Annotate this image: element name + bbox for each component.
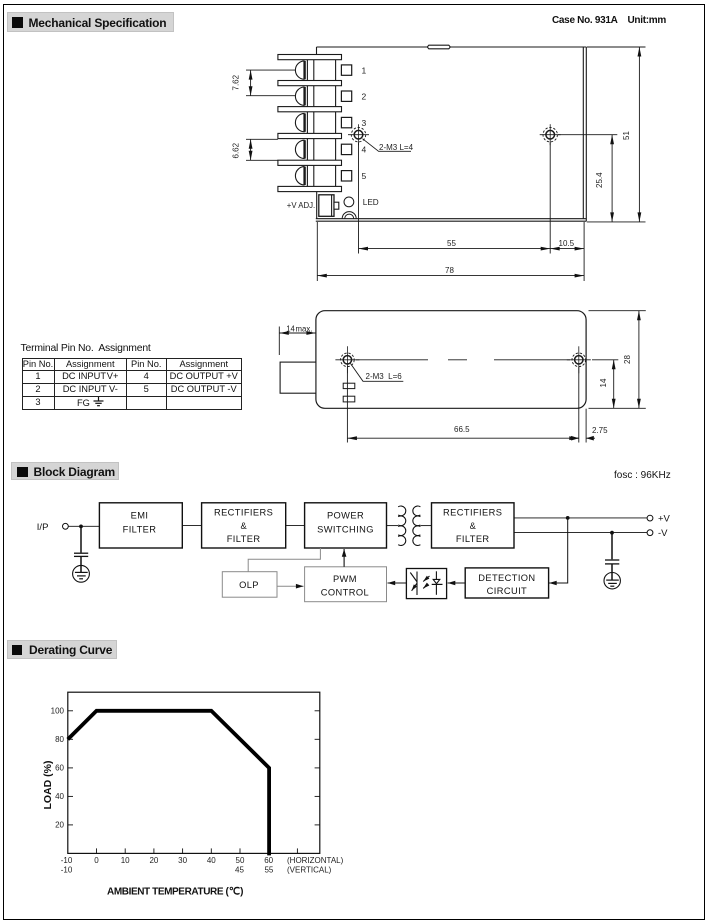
mounting hole bottom view — [567, 346, 591, 373]
node +V sense junction — [566, 516, 570, 520]
svg-text:50: 50 — [236, 856, 245, 865]
mounting hole front view — [540, 124, 561, 145]
potentiometer +V ADJ — [319, 195, 334, 217]
terminal screw 4 — [295, 140, 304, 158]
terminal body lines gap 4 — [306, 139, 308, 161]
svg-text:0: 0 — [94, 856, 99, 865]
output terminal +V — [647, 515, 653, 521]
terminal block barrier plate 3 — [278, 107, 342, 112]
hole arcs on bottom flange — [342, 212, 356, 219]
terminal block barrier plate 2 — [278, 81, 342, 86]
svg-text:CIRCUIT: CIRCUIT — [487, 586, 528, 596]
svg-text:PWM: PWM — [333, 574, 357, 584]
wire +V sense to DETECTION CIRCUIT — [550, 518, 568, 583]
svg-text:AMBIENT TEMPERATURE ( ℃ ): AMBIENT TEMPERATURE ( ℃ ) — [107, 887, 243, 898]
extension lines below front view — [317, 47, 645, 281]
svg-text:6.62: 6.62 — [231, 142, 240, 158]
svg-text:4: 4 — [362, 145, 367, 155]
svg-text:+V ADJ.: +V ADJ. — [287, 201, 315, 210]
svg-text:40: 40 — [207, 856, 216, 865]
block RECTIFIERS & FILTER (output) — [432, 503, 515, 548]
terminal block barrier plate 1 — [278, 55, 342, 60]
dimension 25.4 — [558, 134, 617, 136]
svg-text:EMI: EMI — [131, 511, 149, 521]
wire input to EMI — [68, 525, 99, 527]
terminal pin table — [22, 358, 243, 411]
terminal body lines gap 5 — [306, 165, 308, 186]
svg-text:FILTER: FILTER — [227, 534, 261, 544]
output terminal -V — [647, 530, 653, 536]
svg-text:80: 80 — [55, 735, 64, 744]
terminal block profile bump — [280, 362, 316, 393]
wire PWM CONTROL to POWER SWITCHING — [343, 549, 345, 567]
svg-text:LOAD (%): LOAD (%) — [42, 761, 54, 810]
ground output (earth) — [604, 573, 620, 589]
svg-text:SWITCHING: SWITCHING — [317, 525, 374, 535]
block PWM CONTROL — [305, 567, 387, 602]
pin hole square 3 — [341, 117, 351, 127]
terminal screw 1 — [295, 61, 304, 79]
svg-text:55: 55 — [264, 866, 273, 875]
node -V junction — [610, 531, 614, 535]
wire RECTIFIERS to POWER SWITCHING — [286, 525, 305, 527]
terminal body lines gap 3 — [306, 112, 308, 134]
mounting hole bottom view — [335, 346, 359, 373]
case front view: left edge segments — [316, 47, 318, 55]
case front view: bottom edge (double) — [316, 218, 587, 220]
x ticks — [97, 848, 298, 853]
wire -V output rail — [514, 532, 647, 534]
pin hole square 2 — [341, 91, 351, 101]
mounting hole front view — [348, 124, 369, 145]
svg-text:10.5: 10.5 — [559, 239, 575, 248]
node input junction — [79, 525, 83, 529]
capacitor output Y-cap — [605, 533, 619, 580]
label 2-M3 L=6 with leader — [351, 364, 404, 382]
case bottom view outline — [316, 311, 586, 409]
wire EMI to RECTIFIERS — [182, 525, 201, 527]
case front view: right edge (double) — [582, 47, 584, 219]
block RECTIFIERS & FILTER (input) — [202, 503, 286, 548]
svg-text:30: 30 — [178, 856, 187, 865]
svg-text:66.5: 66.5 — [454, 425, 470, 434]
derating curve line — [68, 711, 269, 856]
dimension 78 — [317, 275, 584, 277]
svg-text:51: 51 — [622, 131, 631, 140]
block POWER SWITCHING — [305, 503, 387, 548]
svg-text:RECTIFIERS: RECTIFIERS — [214, 507, 273, 517]
label 2-M3 L=4 with leader — [363, 139, 412, 152]
section header: Block Diagram — [11, 462, 119, 480]
terminal screw 2 — [295, 87, 304, 105]
pin hole square 1 — [341, 65, 351, 75]
svg-text:POWER: POWER — [327, 511, 364, 521]
pin hole square 5 — [341, 171, 351, 181]
terminal body lines gap 1 — [306, 60, 308, 81]
terminal block barrier plate 6 — [278, 186, 342, 191]
svg-text:45: 45 — [235, 866, 244, 875]
terminal pin table title — [21, 343, 151, 354]
vent slots — [343, 383, 355, 388]
transformer T1 — [398, 506, 420, 545]
wire POWER SWITCHING to transformer — [387, 525, 399, 527]
centerline between holes — [356, 359, 570, 361]
y ticks — [68, 711, 320, 825]
dimension 14 — [592, 359, 618, 361]
block EMI FILTER — [99, 503, 182, 548]
dimension 55 — [359, 248, 551, 250]
svg-text:-V: -V — [658, 528, 668, 539]
svg-text:14: 14 — [599, 378, 608, 387]
chart frame — [68, 692, 320, 853]
svg-text:28: 28 — [623, 355, 632, 364]
svg-text:60: 60 — [55, 764, 64, 773]
svg-text:(VERTICAL): (VERTICAL) — [287, 866, 332, 875]
dimension 2.75 — [570, 437, 579, 439]
svg-text:10: 10 — [121, 856, 130, 865]
wire POWER SWITCHING to OLP — [248, 548, 320, 572]
svg-text:20: 20 — [149, 856, 158, 865]
dimension 28 — [589, 310, 646, 312]
svg-text:FILTER: FILTER — [123, 525, 157, 535]
svg-text:55: 55 — [447, 239, 456, 248]
wire optocoupler to PWM CONTROL — [388, 582, 407, 584]
svg-text:-10: -10 — [61, 856, 73, 865]
svg-text:-10: -10 — [61, 866, 73, 875]
svg-text:&: & — [470, 521, 477, 531]
svg-text:CONTROL: CONTROL — [321, 587, 369, 597]
svg-text:2-M3 L=6: 2-M3 L=6 — [366, 372, 403, 381]
terminal block barrier plate 4 — [278, 133, 342, 138]
LED indicator — [344, 197, 354, 207]
dimension 14max — [279, 311, 646, 443]
section header: Mechanical Specification — [7, 12, 174, 32]
terminal block barrier plate 5 — [278, 160, 342, 165]
terminal screw 3 — [295, 113, 304, 131]
optocoupler U1 — [406, 569, 446, 599]
case no / unit label — [552, 15, 666, 26]
svg-text:1: 1 — [362, 65, 367, 75]
case front view: top edge — [317, 46, 587, 48]
svg-text:78: 78 — [445, 266, 454, 275]
fosc label — [614, 470, 671, 481]
svg-text:(HORIZONTAL): (HORIZONTAL) — [287, 856, 344, 865]
svg-text:RECTIFIERS: RECTIFIERS — [443, 507, 502, 517]
block OLP — [222, 572, 277, 598]
svg-text:2: 2 — [362, 91, 367, 101]
svg-text:40: 40 — [55, 792, 64, 801]
svg-text:FILTER: FILTER — [456, 534, 490, 544]
svg-text:LED: LED — [363, 198, 379, 207]
svg-text:100: 100 — [51, 707, 65, 716]
svg-text:25.4: 25.4 — [595, 172, 604, 188]
svg-text:DETECTION: DETECTION — [478, 573, 535, 583]
section header: Derating Curve — [7, 640, 117, 659]
dimension 66.5 — [347, 437, 578, 439]
wire DETECTION CIRCUIT to optocoupler — [448, 582, 466, 584]
svg-text:2-M3 L=4: 2-M3 L=4 — [379, 143, 414, 152]
dimension 6.62 — [231, 139, 278, 160]
dimension 10.5 — [550, 248, 584, 250]
svg-text:5: 5 — [362, 171, 367, 181]
ground input (earth) — [73, 565, 90, 582]
pin hole square 4 — [341, 144, 351, 154]
svg-text:3: 3 — [362, 118, 367, 128]
case front view: top notch — [427, 45, 450, 49]
terminal screw 5 — [295, 167, 304, 185]
terminal body lines gap 2 — [306, 86, 308, 107]
svg-text:20: 20 — [55, 821, 64, 830]
wire +V output rail — [514, 517, 647, 519]
block DETECTION CIRCUIT — [465, 568, 548, 598]
svg-text:7.62: 7.62 — [231, 74, 240, 90]
svg-text:2.75: 2.75 — [592, 426, 608, 435]
svg-text:14 max.: 14 max. — [286, 324, 312, 333]
dimension 7.62 — [231, 70, 295, 96]
svg-text:&: & — [240, 521, 247, 531]
svg-text:+V: +V — [658, 514, 671, 525]
svg-text:60: 60 — [264, 856, 273, 865]
wire OLP to PWM CONTROL — [277, 585, 304, 587]
wire transformer to RECTIFIERS output — [421, 525, 432, 527]
dimension 51 — [587, 46, 646, 48]
svg-text:I/P: I/P — [37, 522, 49, 533]
svg-text:OLP: OLP — [239, 580, 259, 590]
extension lines below bottom view — [346, 367, 348, 443]
capacitor input Y-cap — [74, 526, 88, 572]
